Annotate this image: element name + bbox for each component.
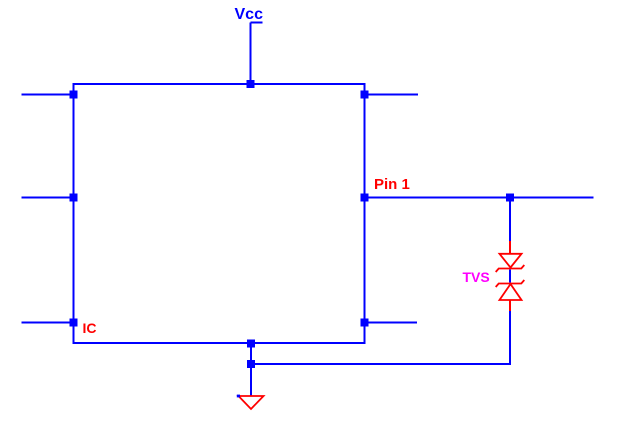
svg-text:TVS: TVS <box>463 269 490 285</box>
TVS diode D1 triangle <box>500 254 522 268</box>
pin square: right 1 <box>361 91 369 99</box>
TVS diode D1 zener bar <box>496 265 525 272</box>
IC U1 box outline <box>74 84 365 343</box>
pin square: right Pin 1 <box>361 194 369 202</box>
svg-text:Vcc: Vcc <box>235 6 264 23</box>
wire: TVS middle segment <box>509 270 511 283</box>
wire: bottom return horizontal <box>251 363 511 365</box>
wire end dot at ground <box>237 395 240 398</box>
wire: top-right pin stub <box>365 94 419 96</box>
junction node below GND pin <box>247 360 255 368</box>
wire: Pin 1 net horizontal <box>365 197 594 199</box>
TVS diode D2 triangle <box>500 284 522 300</box>
svg-text:Pin 1: Pin 1 <box>374 176 410 193</box>
junction node on Pin 1 net <box>506 194 514 202</box>
wire: Vcc vertical <box>250 23 252 85</box>
Vcc power port bar <box>251 22 263 24</box>
svg-text:IC: IC <box>83 320 97 336</box>
pin square: left 2 <box>70 194 78 202</box>
wire: TVS branch lower vertical <box>509 311 511 364</box>
pin square: right 3 <box>361 319 369 327</box>
pin square: bottom GND pin <box>247 340 255 348</box>
wire: GND vertical <box>250 344 252 397</box>
wire: left pin stub 2 <box>22 197 74 199</box>
wire: left pin stub 3 <box>22 322 74 324</box>
wire: left pin stub 1 <box>22 94 74 96</box>
ground symbol <box>239 396 264 409</box>
wire: bottom-right pin stub <box>365 322 418 324</box>
pin square: top Vcc pin <box>247 80 255 88</box>
TVS diode D2 zener bar <box>496 280 525 287</box>
TVS diode D1 top lead <box>509 241 511 254</box>
pin square: left 1 <box>70 91 78 99</box>
TVS diode D2 bottom lead <box>509 300 511 311</box>
pin square: left 3 <box>70 319 78 327</box>
wire: TVS branch upper vertical <box>509 198 511 242</box>
